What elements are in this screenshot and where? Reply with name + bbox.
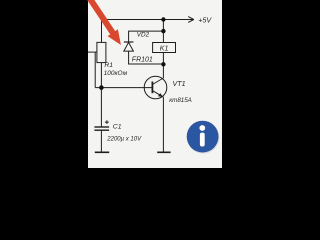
svg-text:2200µ x 10V: 2200µ x 10V [106,137,142,143]
wire emitter to ground [162,97,164,152]
ground (emitter) [157,151,170,153]
resistor R1 [97,42,106,62]
svg-text:K1: K1 [160,46,169,53]
wire node J3 to collector VT1 [162,64,164,78]
wire input stub [88,51,97,53]
wire C1 bottom to ground [100,131,102,152]
wire node J2 to diode top [129,31,164,42]
svg-text:C1: C1 [113,124,122,131]
wire R1 drop from rail [101,20,103,43]
svg-text:+5V: +5V [198,15,212,24]
node J1 [161,17,165,21]
svg-text:VT1: VT1 [173,80,186,88]
red callout arrow [84,0,126,48]
svg-text:FR101: FR101 [132,56,153,63]
wire input drop to base node [94,52,96,88]
+5V arrowhead [188,17,194,23]
wire node J4 to capacitor C1 [100,88,102,127]
transistor VT1 [144,76,167,99]
wire node J2 to relay K1 top [162,31,164,42]
node J2 [161,29,165,33]
svg-text:100кОм: 100кОм [104,70,128,77]
wire base node J4 to transistor base [95,87,152,89]
video background bars [0,0,300,168]
wire relay K1 bottom to node J3 [162,53,164,65]
info icon [187,121,220,154]
svg-text:VD2: VD2 [137,32,150,39]
wire node J1 to node J2 [162,20,164,32]
capacitor C1 [94,120,109,130]
wire diode bottom to node J3 [129,51,164,64]
diode VD2 [124,42,134,51]
wire R1 bottom to node J4 [100,63,102,88]
ground (C1) [95,151,109,153]
node J3 [161,62,165,66]
relay K1 [153,43,176,53]
schematic white background [88,0,222,168]
wire +5V top rail [102,19,194,21]
svg-text:кт815А: кт815А [169,97,192,104]
svg-text:R1: R1 [104,62,113,69]
node J4 [99,85,104,90]
